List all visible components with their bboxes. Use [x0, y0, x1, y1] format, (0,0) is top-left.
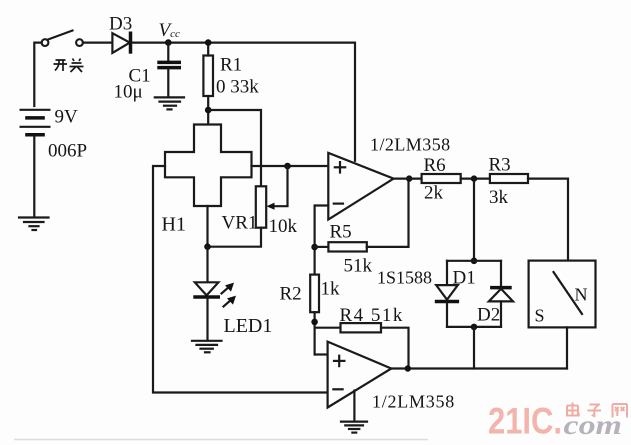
ground (battery)	[19, 218, 49, 231]
node diode pair bottom	[471, 324, 478, 331]
resistor R5	[315, 179, 409, 252]
wire magnet box bottom	[566, 327, 568, 368]
wire H1 bottom stem	[206, 206, 208, 247]
node wiper junction	[284, 163, 291, 170]
svg-text:0 33k: 0 33k	[216, 77, 259, 98]
magnet box S/N	[529, 261, 596, 328]
capacitor C1	[157, 43, 181, 97]
svg-text:VR1: VR1	[222, 213, 258, 234]
ground (LED1)	[192, 341, 222, 353]
Vcc rail wire	[132, 43, 356, 161]
ground (U1b)	[341, 391, 367, 433]
diode D3	[112, 32, 130, 54]
svg-text:R5: R5	[330, 222, 352, 243]
wire H1 left arm down to U1b - input	[153, 166, 328, 393]
scan smear bottom	[14, 439, 428, 441]
svg-text:D3: D3	[109, 14, 132, 35]
node R2 bottom / R4 left	[311, 319, 318, 326]
node R6/R3/diodes junction	[471, 175, 477, 181]
svg-text:1/2LM358: 1/2LM358	[370, 135, 451, 155]
op-amp U1a	[328, 153, 393, 220]
switch S1 开关	[42, 31, 83, 46]
svg-text:D2: D2	[477, 305, 500, 326]
svg-text:1/2LM358: 1/2LM358	[372, 392, 455, 412]
diode D2	[489, 261, 513, 327]
wire R1 bottom to VR1 top	[208, 110, 261, 186]
potentiometer VR1	[208, 166, 288, 247]
diode D1	[435, 261, 459, 327]
resistor R2	[310, 275, 319, 355]
svg-text:N: N	[575, 285, 588, 305]
svg-text:R4 51k: R4 51k	[340, 305, 404, 326]
svg-text:R2: R2	[280, 284, 302, 305]
svg-text:10k: 10k	[269, 216, 298, 237]
node diode pair top	[471, 258, 478, 265]
wire H1 right arm to op-amp U1a + input	[252, 165, 329, 167]
node U1a output	[406, 175, 412, 181]
node R5 left	[311, 244, 318, 251]
resistor R1	[203, 43, 213, 125]
svg-text:R3: R3	[489, 155, 511, 176]
svg-text:3k: 3k	[489, 187, 509, 208]
svg-text:S: S	[535, 306, 545, 326]
op-amp U1b	[328, 342, 392, 408]
svg-text:1S1588: 1S1588	[377, 268, 432, 288]
wire diode pair to output line	[473, 327, 475, 369]
watermark 电子网 hand-drawn glyphs	[567, 403, 627, 418]
svg-text:51k: 51k	[344, 256, 373, 277]
svg-text:21IC.: 21IC.	[488, 401, 562, 442]
resistor R4	[315, 323, 409, 368]
wire to U1b + input	[315, 353, 328, 355]
svg-text:9V: 9V	[55, 107, 79, 128]
wire U1a - input down to R5 node	[315, 206, 329, 275]
wire U1b output line	[391, 367, 567, 369]
node Vcc	[165, 39, 172, 46]
diode pair top rail	[447, 260, 501, 262]
svg-text:H1: H1	[162, 214, 186, 236]
svg-text:R6: R6	[424, 155, 446, 176]
wire switch to D3	[83, 41, 113, 43]
node U1b output	[405, 365, 411, 371]
label 开关 (switch) hand-drawn glyphs	[54, 59, 84, 73]
diode pair bottom rail	[447, 326, 501, 328]
ground (C1)	[155, 97, 184, 109]
wire switch to battery	[34, 43, 41, 106]
svg-text:10μ: 10μ	[114, 82, 143, 103]
node R1 top	[205, 39, 212, 46]
node H1/VR1/LED junction	[204, 243, 211, 250]
wire battery to ground	[33, 136, 35, 217]
svg-text:006P: 006P	[48, 141, 87, 162]
svg-text:D1: D1	[453, 268, 476, 289]
svg-text:1k: 1k	[321, 279, 341, 300]
LED light arrows	[222, 283, 237, 307]
wire junction down to diode pair	[473, 179, 475, 261]
resistor R3	[490, 174, 568, 261]
svg-text:2k: 2k	[424, 183, 444, 204]
svg-text:LED1: LED1	[224, 315, 273, 337]
Hall element H1 (cross)	[165, 125, 252, 207]
LED1	[193, 247, 220, 340]
resistor R6	[394, 174, 490, 183]
node R1 bottom	[205, 107, 212, 114]
svg-text:R1: R1	[220, 55, 242, 76]
battery B1 9V	[21, 110, 50, 135]
